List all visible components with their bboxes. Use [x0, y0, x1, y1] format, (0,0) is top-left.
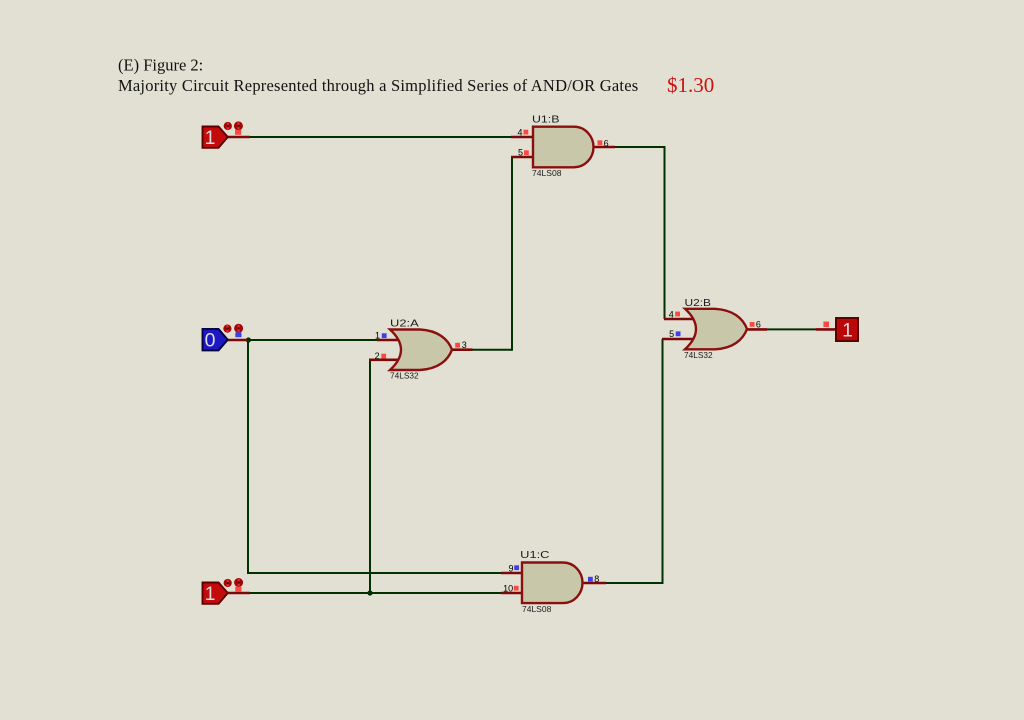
toggle actuator B circle 1	[223, 325, 231, 333]
pin U2:B 6 out	[745, 328, 768, 331]
state square input C red	[235, 587, 241, 592]
wire U1:C out vertical up to U2:B pin5	[662, 339, 664, 584]
state square U2:B pin5 blue	[676, 331, 681, 336]
wire U2:A out horizontal	[472, 349, 512, 351]
pin U2:A 2	[369, 358, 400, 361]
state square pin4 red	[524, 130, 529, 135]
state square input B blue	[235, 332, 241, 337]
pin U1:C 10	[501, 592, 523, 595]
svg-text:6: 6	[756, 319, 761, 329]
state square pin10 red	[514, 586, 519, 591]
junction node input C / pin2 riser	[367, 590, 372, 595]
toggle actuator A circle 1	[224, 122, 232, 130]
svg-text:U1:C: U1:C	[520, 549, 550, 561]
svg-text:6: 6	[604, 138, 609, 148]
junction node input B	[246, 337, 251, 342]
toggle actuator C circle 1	[224, 579, 232, 587]
logicstate input C (value 1)	[203, 583, 228, 606]
pin U2:A 3 out	[451, 348, 473, 351]
svg-text:Majority Circuit Represented t: Majority Circuit Represented through a S…	[118, 76, 638, 95]
svg-text:U2:A: U2:A	[390, 318, 419, 330]
svg-text:74LS08: 74LS08	[522, 605, 552, 614]
state square before output terminal red	[823, 322, 829, 328]
pin input B	[227, 339, 247, 342]
state square U2:A out red	[455, 343, 460, 348]
svg-text:0: 0	[205, 330, 216, 352]
svg-text:3: 3	[462, 340, 467, 350]
svg-text:5: 5	[669, 329, 674, 339]
wire U2:A out vertical up to U1:B pin5	[511, 157, 513, 351]
pin U1:C 9	[501, 572, 523, 575]
AND gate U1:B body	[533, 127, 594, 168]
wire branch horizontal to U1:C pin9	[247, 572, 502, 574]
svg-text:74LS32: 74LS32	[390, 371, 419, 380]
pin U1:B 4	[511, 136, 534, 139]
wire input B to U2:A pin1	[248, 339, 378, 341]
state square pin2 red	[381, 354, 386, 359]
svg-text:U2:B: U2:B	[685, 297, 712, 309]
wire riser to U2:A pin2	[369, 360, 371, 593]
state square U1:B out red	[598, 140, 603, 145]
state square pin5 red	[524, 150, 529, 155]
svg-text:74LS32: 74LS32	[684, 351, 713, 360]
wire U2:B out to output terminal	[766, 328, 817, 330]
logicstate input A (value 1)	[203, 127, 228, 150]
svg-text:8: 8	[594, 574, 599, 584]
wire U1:C out horizontal	[605, 582, 663, 584]
AND gate U1:C body	[522, 563, 583, 604]
pin U1:B 5	[511, 156, 534, 159]
svg-text:1: 1	[842, 320, 853, 342]
wire U1:B out horizontal	[614, 146, 665, 148]
pin U2:B 5	[662, 338, 695, 341]
svg-text:4: 4	[517, 128, 522, 138]
svg-text:U1:B: U1:B	[532, 113, 560, 125]
OR gate U2:A body	[390, 330, 452, 371]
state square U2:B out red	[750, 322, 755, 327]
pin U1:B 6 out	[593, 146, 615, 149]
svg-text:74LS08: 74LS08	[532, 169, 562, 178]
pin U2:A 1	[377, 339, 400, 342]
svg-text:10: 10	[503, 584, 513, 594]
wire input B branch vertical	[247, 339, 249, 573]
pin U1:C 8 out	[583, 582, 607, 585]
state square pin1 blue	[382, 333, 387, 338]
wire U1:B out vertical down to U2:B pin4	[664, 146, 666, 319]
pin input C	[227, 592, 250, 595]
pin input A	[227, 136, 250, 139]
state square U1:C out blue	[588, 577, 593, 582]
OR gate U2:B body	[685, 309, 747, 350]
toggle actuator A circle 2	[234, 121, 243, 130]
svg-text:2: 2	[375, 351, 380, 361]
svg-text:1: 1	[205, 583, 216, 605]
toggle actuator C circle 2	[234, 578, 243, 587]
pin output terminal	[816, 328, 837, 331]
svg-text:1: 1	[375, 331, 380, 341]
svg-text:1: 1	[205, 127, 216, 149]
output logicprobe terminal (value 1)	[836, 318, 858, 342]
wire input C to U1:C pin10	[249, 592, 502, 594]
toggle actuator B circle 2	[234, 324, 243, 333]
wire top input A to U1:B pin4	[249, 136, 512, 138]
state square pin9 blue	[514, 565, 519, 570]
svg-text:(E) Figure 2:: (E) Figure 2:	[118, 56, 203, 75]
svg-text:4: 4	[669, 309, 674, 319]
pin U2:B 4	[664, 318, 695, 321]
state square input A red	[235, 130, 241, 135]
svg-text:5: 5	[518, 148, 523, 158]
svg-text:$1.30: $1.30	[667, 73, 714, 97]
state square U2:B pin4 red	[675, 312, 680, 317]
svg-text:9: 9	[508, 563, 513, 573]
logicstate input B (value 0)	[203, 329, 228, 352]
